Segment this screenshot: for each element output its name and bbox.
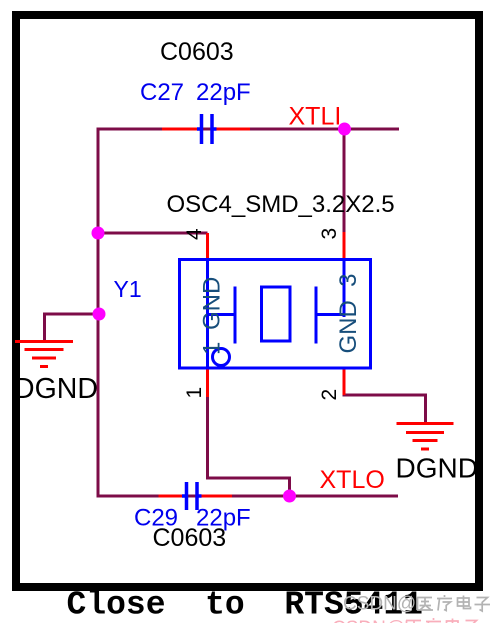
- pin 4 stub: [206, 233, 209, 261]
- ground DGND left: [15, 342, 73, 367]
- svg-text:C0603: C0603: [160, 38, 234, 66]
- oscillator internal left pin line: [206, 261, 209, 367]
- wire pin 2 to right ground: [344, 394, 426, 422]
- capacitor C27: [197, 114, 217, 144]
- svg-text:1: 1: [183, 387, 206, 399]
- svg-text:3: 3: [318, 228, 341, 240]
- svg-text:4: 4: [183, 228, 206, 240]
- svg-text:2: 2: [318, 389, 341, 401]
- svg-text:XTLO: XTLO: [320, 466, 385, 494]
- crystal left connector: [208, 313, 236, 316]
- wire branch to pin 4: [98, 232, 208, 235]
- svg-text:GND 3: GND 3: [335, 273, 362, 353]
- svg-text:XTLI: XTLI: [289, 103, 342, 131]
- pin 1 stub: [206, 367, 209, 397]
- pin 1 indicator circle: [213, 349, 230, 366]
- capacitor C27 leads: [162, 128, 197, 131]
- wire top XTLI net: [98, 129, 399, 496]
- oscillator Y1 body: [180, 260, 371, 369]
- pin 2 stub: [343, 367, 346, 395]
- wire XTLI vertical to pin 3: [343, 129, 346, 233]
- svg-text:OSC4_SMD_3.2X2.5: OSC4_SMD_3.2X2.5: [167, 191, 395, 218]
- svg-text:1: 1: [199, 342, 226, 355]
- node XTLO junction dot: [283, 490, 296, 503]
- svg-text:DGND: DGND: [14, 373, 98, 405]
- svg-text:C0603: C0603: [153, 524, 227, 552]
- svg-text:GND: GND: [199, 277, 226, 330]
- wire pin 1 to bottom net: [208, 396, 290, 496]
- oscillator internal right pin line: [343, 261, 346, 317]
- node junction dot pin4 branch: [92, 227, 105, 240]
- svg-text:22pF: 22pF: [196, 79, 251, 106]
- node junction dot Y1 ground branch: [93, 308, 106, 321]
- svg-text:C27: C27: [140, 79, 184, 106]
- capacitor C29: [182, 482, 202, 510]
- crystal right connector: [316, 313, 344, 316]
- svg-text:Y1: Y1: [114, 276, 142, 302]
- capacitor C29 leads: [159, 495, 183, 498]
- ground DGND right: [397, 424, 454, 450]
- wire to left ground: [45, 314, 100, 341]
- svg-text:CSDN@: CSDN@: [332, 618, 405, 623]
- crystal body rectangle: [262, 287, 291, 341]
- svg-text:DGND: DGND: [396, 453, 478, 484]
- crystal left plate: [234, 287, 237, 344]
- svg-text:CSDN@: CSDN@: [343, 594, 416, 615]
- node XTLI junction dot: [338, 123, 351, 136]
- crystal right plate: [315, 287, 318, 344]
- pin 3 stub: [343, 232, 346, 261]
